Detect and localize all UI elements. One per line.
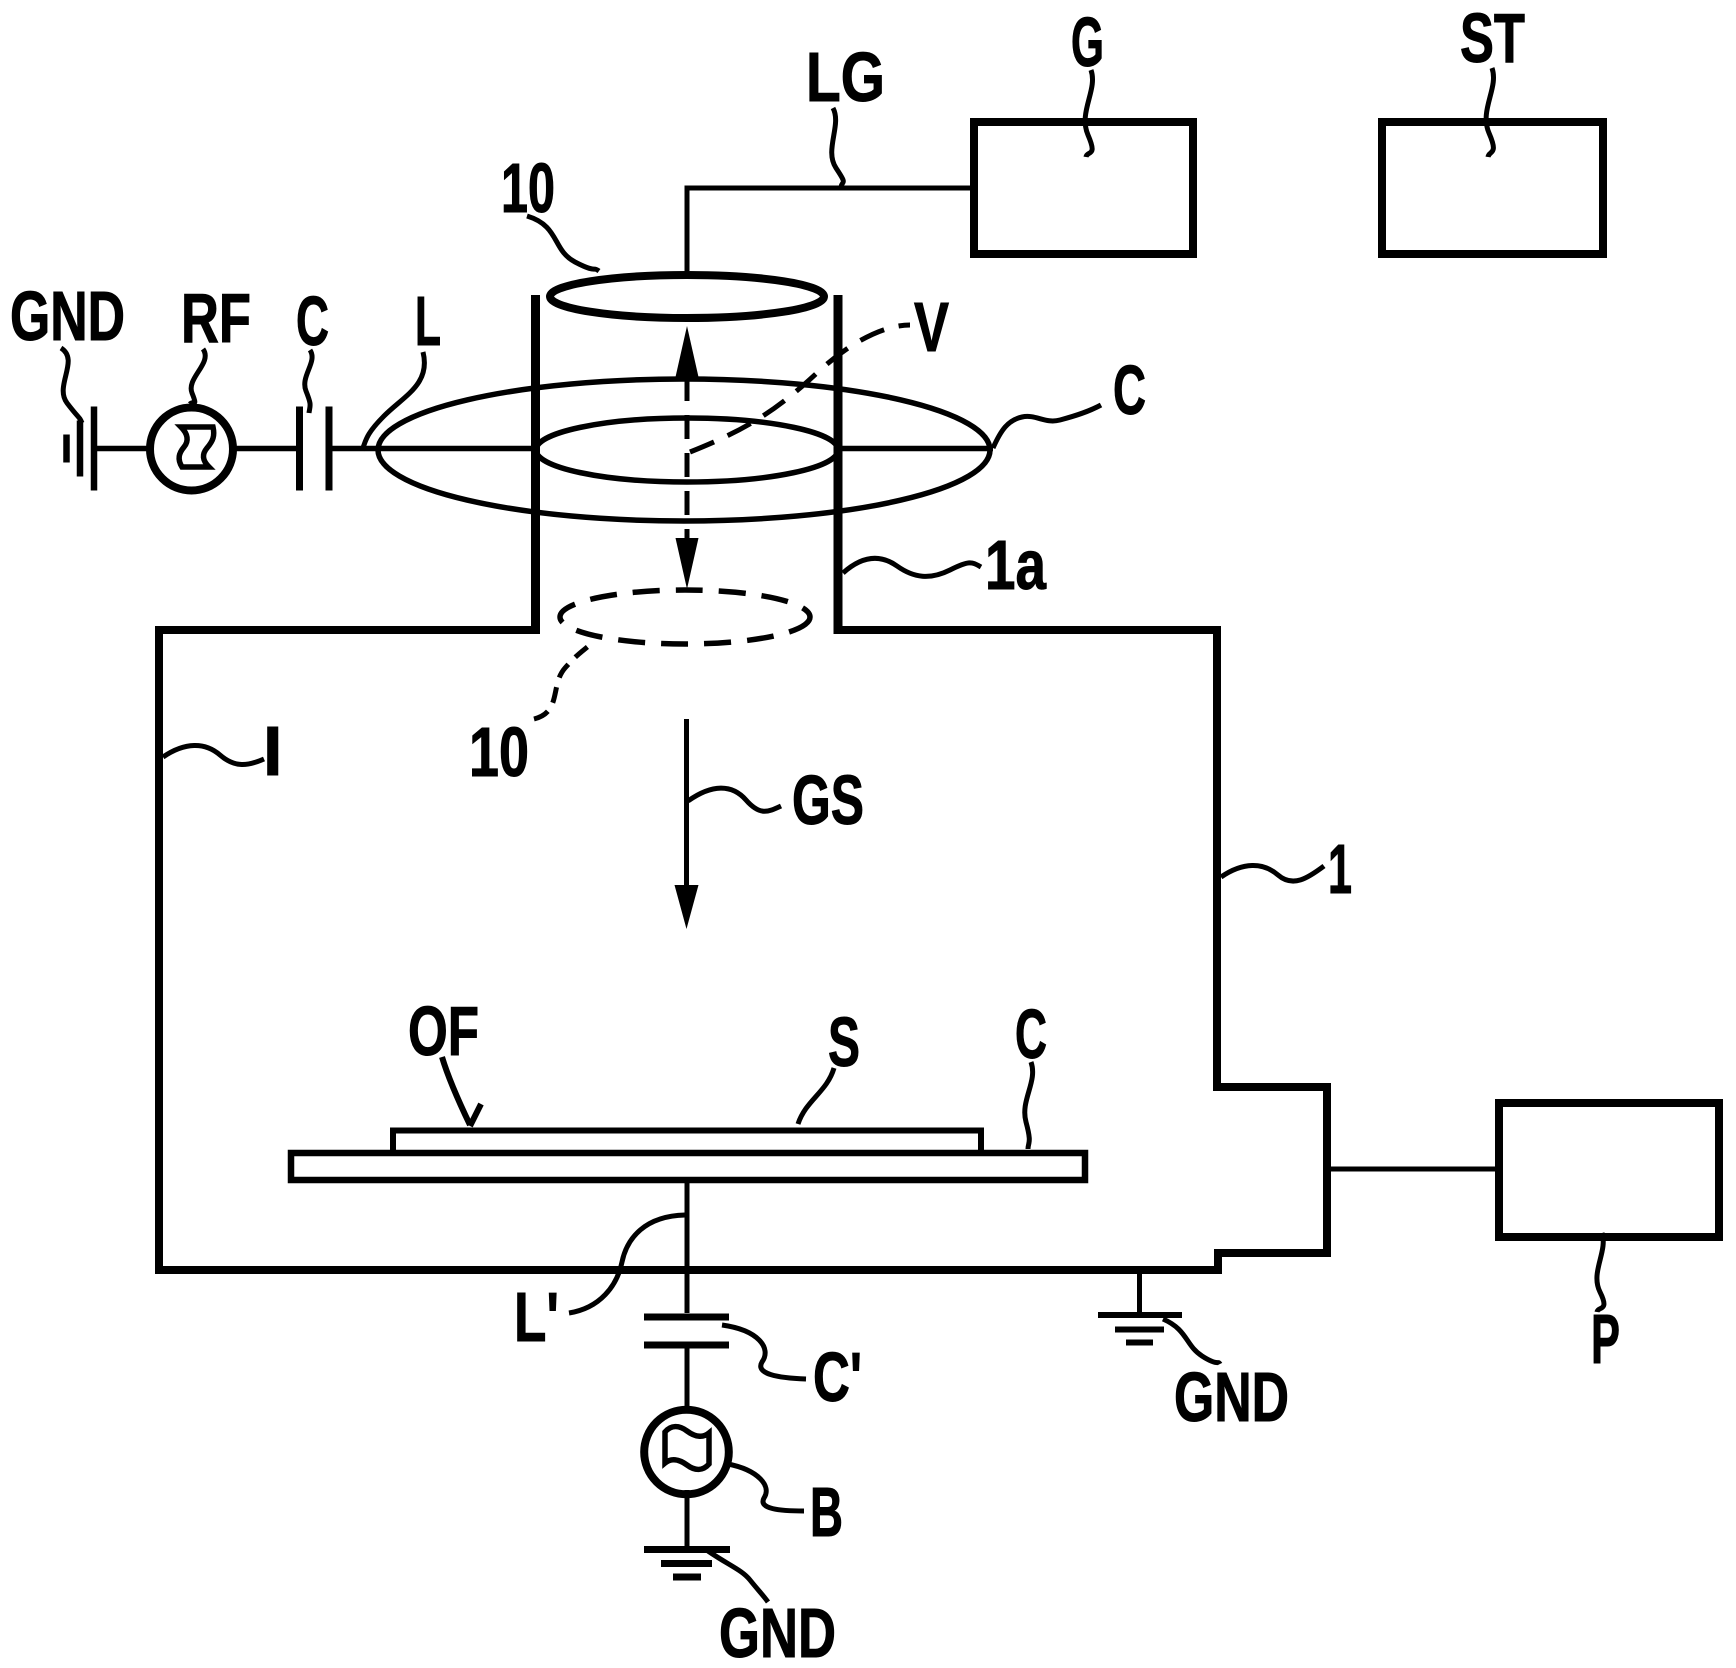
ground symbol GND (left) (67, 407, 95, 491)
label GND (left) (10, 277, 125, 423)
svg-text:I: I (263, 712, 282, 790)
controller box ST (1382, 122, 1603, 254)
svg-text:G: G (1071, 3, 1104, 81)
svg-text:1a: 1a (985, 526, 1047, 604)
label C (coil) (993, 351, 1146, 448)
label L (coil lead) (362, 282, 441, 450)
svg-text:S: S (828, 1003, 860, 1081)
capacitor C (matching) (300, 407, 330, 491)
arrow V down arrowhead (676, 538, 699, 589)
label OF (arrow leader) (408, 992, 481, 1126)
chuck C (stage) (291, 1153, 1085, 1180)
chamber 1: top-left wall (155, 626, 540, 634)
svg-text:RF: RF (181, 279, 251, 357)
RF source waveform glyph (179, 427, 214, 467)
svg-text:C: C (1015, 995, 1047, 1073)
svg-text:C: C (1113, 351, 1146, 429)
svg-text:GND: GND (719, 1594, 836, 1668)
plasma tube 10: top ellipse (550, 275, 824, 318)
svg-text:C': C' (813, 1338, 862, 1416)
label C' (722, 1325, 862, 1416)
chamber 1: left wall (155, 626, 163, 1274)
bias source waveform glyph (665, 1427, 709, 1470)
chamber 1: step wall (1214, 1249, 1222, 1274)
svg-text:OF: OF (408, 992, 479, 1070)
arrow V dashed shaft (685, 377, 690, 538)
arrow V up arrowhead (676, 326, 699, 377)
svg-text:L: L (415, 282, 441, 360)
wire RF to capacitor C (234, 446, 296, 452)
plasma tube 10: left wall (531, 295, 540, 634)
svg-text:C: C (296, 282, 329, 360)
wire stem from chuck L' (685, 1181, 690, 1313)
chamber 1: port bottom wall (1214, 1249, 1331, 1257)
label GND (right) (1163, 1319, 1289, 1436)
svg-text:LG: LG (806, 38, 885, 116)
svg-text:1: 1 (1328, 830, 1352, 908)
label B (728, 1464, 843, 1551)
label RF (181, 279, 251, 404)
coil outer turn (ellipse) (378, 379, 990, 521)
svg-text:ST: ST (1460, 0, 1525, 77)
wire LG: gas line from G box to tube (687, 188, 970, 271)
label L' (514, 1215, 685, 1356)
wire B to ground (685, 1490, 690, 1547)
arrow GS shaft (684, 719, 689, 888)
svg-text:B: B (810, 1473, 843, 1551)
svg-text:GS: GS (792, 761, 864, 839)
coil inner turn (ellipse) (536, 418, 838, 482)
label GS (688, 761, 864, 839)
capacitor C' (644, 1317, 729, 1345)
svg-text:L': L' (514, 1278, 559, 1356)
label 10 (plasma, dashed leader) (469, 641, 594, 791)
wire capacitor to coil (332, 446, 538, 452)
label S (substrate) (798, 1003, 860, 1124)
svg-text:GND: GND (10, 277, 125, 355)
arrow GS arrowhead (675, 885, 699, 929)
wire C' to B (685, 1348, 690, 1408)
svg-text:10: 10 (469, 713, 529, 791)
bias source B (644, 1410, 729, 1495)
substrate S (plate) (393, 1131, 981, 1154)
wire chamber to ground (right) (1137, 1274, 1142, 1315)
label C (capacitor) (296, 282, 329, 413)
label C (chuck) (1015, 995, 1047, 1149)
label V (dashed leader) (690, 288, 949, 452)
chamber 1: port top wall (1213, 1083, 1331, 1091)
wire ground to RF (97, 446, 150, 452)
gas supply box G (974, 122, 1193, 254)
svg-text:10: 10 (501, 149, 555, 227)
plasma tube 10: right wall (834, 295, 843, 634)
plasma region 10 (dashed ellipse) (560, 590, 810, 644)
label 1a (tube flange) (843, 526, 1047, 604)
chamber 1: bottom wall (155, 1266, 1222, 1274)
pump box P (1499, 1103, 1719, 1237)
chamber 1: port right wall (1323, 1083, 1331, 1257)
svg-text:P: P (1591, 1300, 1620, 1378)
svg-text:GND: GND (1174, 1358, 1289, 1436)
label P (1591, 1233, 1620, 1378)
label 1 (chamber) (1221, 830, 1352, 908)
svg-text:V: V (914, 288, 949, 366)
RF source U RF (150, 408, 233, 491)
label LG (806, 38, 885, 187)
label G (1071, 3, 1104, 157)
ground symbol (below B) (644, 1550, 730, 1578)
label I (chamber interior) (163, 712, 282, 790)
wire chamber port to pump P (1331, 1167, 1495, 1172)
label GND (bottom) (708, 1551, 836, 1668)
label ST (1460, 0, 1525, 157)
label 10 (tube) (501, 149, 599, 271)
wire coil right lead (838, 446, 993, 452)
chamber 1: top-right wall (834, 626, 1221, 634)
chamber 1: right wall (1213, 626, 1221, 1091)
ground symbol (chamber right) (1098, 1315, 1182, 1343)
